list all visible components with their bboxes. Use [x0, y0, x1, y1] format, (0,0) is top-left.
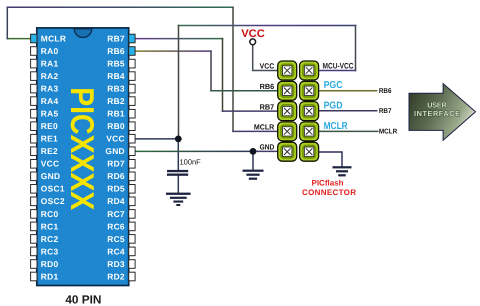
- connector pad row 4 col 2: [300, 122, 319, 141]
- wire VCC chip pin to junction: [135, 138, 178, 140]
- pin 25 RC6 (right): [129, 222, 135, 231]
- wire junction to capacitor C1: [177, 139, 179, 170]
- svg-text:40 PIN: 40 PIN: [65, 292, 101, 306]
- svg-text:GND: GND: [105, 146, 125, 156]
- pin 3 RA1 (left): [31, 59, 37, 68]
- svg-text:OSC2: OSC2: [41, 196, 65, 206]
- user interface arrow: [409, 84, 476, 141]
- svg-text:RB6: RB6: [379, 88, 392, 95]
- svg-text:MCU-VCC: MCU-VCC: [323, 62, 354, 71]
- junction node GND: [250, 148, 257, 155]
- connector J1 PICflash 2x5 header: [278, 61, 319, 161]
- wire PGD to RB7 label: [318, 110, 376, 112]
- svg-text:RC4: RC4: [107, 246, 125, 256]
- IC body: [37, 28, 129, 286]
- svg-text:RD6: RD6: [107, 171, 125, 181]
- pin 33 RB0 (right): [129, 122, 135, 131]
- pin 30 RD7 (right): [129, 160, 135, 169]
- pin 13 OSC1 (left): [31, 185, 37, 194]
- pin 2 RA0 (left): [31, 47, 37, 56]
- svg-text:PGD: PGD: [324, 100, 343, 111]
- svg-text:RD5: RD5: [107, 184, 125, 194]
- svg-text:RB7: RB7: [260, 102, 275, 111]
- pin 14 OSC2 (left): [31, 197, 37, 206]
- pin 38 RB5 (right): [129, 59, 135, 68]
- svg-text:RB6: RB6: [260, 82, 275, 91]
- svg-text:PICflash: PICflash: [312, 179, 344, 188]
- svg-text:RC1: RC1: [41, 221, 59, 231]
- wire MCU-VCC net: upper horizontal run y=25.5: [179, 25, 356, 27]
- wire MCLR row 4 to MCLR label: [318, 130, 378, 132]
- connector left labels: [254, 62, 275, 152]
- IC right pin name labels: [105, 33, 125, 281]
- pin 5 RA3 (left): [31, 84, 37, 93]
- wire MCU-VCC net: vertical rise x=355.5: [355, 26, 357, 71]
- pin 26 RC7 (right): [129, 210, 135, 219]
- pin 21 RD2 (right): [129, 272, 135, 281]
- svg-text:RA4: RA4: [41, 96, 59, 106]
- svg-text:MCLR: MCLR: [324, 121, 349, 132]
- pin 24 RC5 (right): [129, 235, 135, 244]
- wire capacitor C1 to ground: [177, 176, 179, 193]
- svg-text:RD0: RD0: [41, 259, 59, 269]
- wire RB6 net: stub into connector row 2: [211, 90, 278, 92]
- pin 28 RD5 (right): [129, 185, 135, 194]
- svg-text:RA1: RA1: [41, 59, 59, 69]
- svg-text:RB5: RB5: [107, 59, 125, 69]
- svg-text:RB7: RB7: [107, 33, 125, 43]
- connector pad row 5 col 2: [300, 142, 319, 161]
- svg-text:RB7: RB7: [379, 108, 392, 115]
- svg-text:INTERFACE: INTERFACE: [414, 109, 460, 118]
- pin 11 VCC (left): [31, 160, 37, 169]
- svg-text:OSC1: OSC1: [41, 184, 65, 194]
- svg-text:RD3: RD3: [107, 259, 125, 269]
- svg-text:GND: GND: [260, 142, 275, 151]
- svg-text:RA0: RA0: [41, 46, 59, 56]
- wire MCLR net: left vertical rail: [6, 7, 8, 38]
- svg-text:RB2: RB2: [107, 96, 125, 106]
- connector pad row 2 col 1: [278, 81, 297, 100]
- connector pad row 4 col 1: [278, 122, 297, 141]
- svg-text:RD4: RD4: [107, 196, 125, 206]
- svg-text:MCLR: MCLR: [41, 33, 66, 43]
- pin 9 RE1 (left): [31, 134, 37, 143]
- svg-text:VCC: VCC: [106, 134, 125, 144]
- pin 18 RC3 (left): [31, 247, 37, 256]
- connector pad row 5 col 1: [278, 142, 297, 161]
- pin 15 RC0 (left): [31, 210, 37, 219]
- svg-text:RC7: RC7: [107, 209, 125, 219]
- svg-text:RA3: RA3: [41, 84, 59, 94]
- connector pad row 3 col 1: [278, 102, 297, 121]
- svg-text:RC2: RC2: [41, 234, 59, 244]
- connector pad row 1 col 1: [278, 61, 297, 80]
- pin 4 RA2 (left): [31, 72, 37, 81]
- wire RB6 net: chip RB6 pin rightwards: [135, 50, 211, 52]
- pin 31 GND (right): [129, 147, 135, 156]
- wire MCLR net: chip pin to left rail: [7, 38, 31, 40]
- svg-text:GND: GND: [41, 171, 61, 181]
- svg-text:RB3: RB3: [107, 84, 125, 94]
- pin 17 RC2 (left): [31, 235, 37, 244]
- connector pad row 2 col 2: [300, 81, 319, 100]
- pin 12 GND (left): [31, 172, 37, 181]
- svg-text:RB6: RB6: [107, 46, 125, 56]
- pin 29 RD6 (right): [129, 172, 135, 181]
- pin 40 RB7 (right): [129, 34, 135, 43]
- svg-text:MCLR: MCLR: [379, 128, 397, 135]
- wire VCC supply: terminal down to connector row 1: [253, 45, 279, 71]
- pin 20 RD1 (left): [31, 272, 37, 281]
- wire RB7 net: chip RB7 pin rightwards: [135, 38, 222, 40]
- wire MCU-VCC net: connector row 1 right stub: [318, 70, 355, 72]
- pin 39 RB6 (right): [129, 47, 135, 56]
- pin 1 MCLR (left): [31, 34, 37, 43]
- VCC supply terminal circle: [250, 39, 256, 45]
- ground symbol under capacitor C1: [166, 193, 191, 206]
- svg-text:RC3: RC3: [41, 246, 59, 256]
- label PICflash CONNECTOR: [302, 179, 356, 197]
- wire GND net: junction down to ground symbol: [252, 151, 254, 170]
- wire RB7 net: vertical drop x=222.5: [222, 39, 224, 112]
- wire MCLR net: vertical drop x=233: [232, 7, 234, 131]
- svg-text:RE0: RE0: [41, 121, 58, 131]
- svg-text:RB4: RB4: [107, 71, 125, 81]
- pin 34 RB1 (right): [129, 109, 135, 118]
- svg-text:VCC: VCC: [260, 62, 275, 71]
- svg-text:RE1: RE1: [41, 134, 58, 144]
- pin 32 VCC (right): [129, 134, 135, 143]
- IC left pin name labels: [41, 33, 66, 281]
- pin 22 RD3 (right): [129, 260, 135, 269]
- pin 19 RD0 (left): [31, 260, 37, 269]
- pin 6 RA4 (left): [31, 97, 37, 106]
- svg-text:RB0: RB0: [107, 121, 125, 131]
- wire GND net: chip GND pin to junction and connector row 5: [135, 150, 253, 152]
- svg-text:PGC: PGC: [324, 80, 343, 91]
- svg-text:MCLR: MCLR: [254, 123, 275, 132]
- wire MCLR net: stub into connector row 4: [233, 130, 278, 132]
- svg-text:RE2: RE2: [41, 146, 58, 156]
- wire MCLR net: top horizontal run: [7, 6, 233, 8]
- svg-text:VCC: VCC: [241, 28, 265, 40]
- svg-text:RD7: RD7: [107, 159, 125, 169]
- pin 23 RC4 (right): [129, 247, 135, 256]
- wire RB7 net: stub into connector row 3: [223, 110, 279, 112]
- junction node VCC/capacitor: [175, 136, 182, 143]
- pin 16 RC1 (left): [31, 222, 37, 231]
- pin 10 RE2 (left): [31, 147, 37, 156]
- wire GND net: junction to connector GND stub: [253, 150, 278, 152]
- pin 35 RB2 (right): [129, 97, 135, 106]
- wire MCU-VCC net: vertical drop x=178.5 to VCC junction: [178, 26, 180, 139]
- svg-text:RD1: RD1: [41, 271, 59, 281]
- ground symbol right of connector: [333, 166, 352, 176]
- wire connector row 5 right stub to ground: [318, 152, 342, 167]
- svg-text:RB1: RB1: [107, 109, 125, 119]
- IC U1 PICXXXX 40-pin DIP: [31, 28, 135, 286]
- svg-text:VCC: VCC: [41, 159, 60, 169]
- svg-text:100nF: 100nF: [180, 157, 202, 166]
- wire RB6 net: vertical drop x=211: [210, 51, 212, 91]
- capacitor C1 plates: [167, 170, 188, 176]
- svg-text:RA5: RA5: [41, 109, 59, 119]
- svg-text:RC6: RC6: [107, 221, 125, 231]
- wire PGC to RB6 label: [318, 90, 376, 92]
- svg-text:RD2: RD2: [107, 271, 125, 281]
- ground symbol at GND junction: [243, 170, 264, 180]
- svg-text:RC5: RC5: [107, 234, 125, 244]
- pin 7 RA5 (left): [31, 109, 37, 118]
- IC notch: [74, 29, 92, 38]
- svg-text:RC0: RC0: [41, 209, 59, 219]
- pin 37 RB4 (right): [129, 72, 135, 81]
- connector pad row 1 col 2: [300, 61, 319, 80]
- pin 27 RD4 (right): [129, 197, 135, 206]
- pin 8 RE0 (left): [31, 122, 37, 131]
- svg-text:PICXXXX: PICXXXX: [64, 87, 101, 210]
- connector pad row 3 col 2: [300, 102, 319, 121]
- svg-text:CONNECTOR: CONNECTOR: [302, 188, 356, 197]
- pin 36 RB3 (right): [129, 84, 135, 93]
- svg-text:RA2: RA2: [41, 71, 59, 81]
